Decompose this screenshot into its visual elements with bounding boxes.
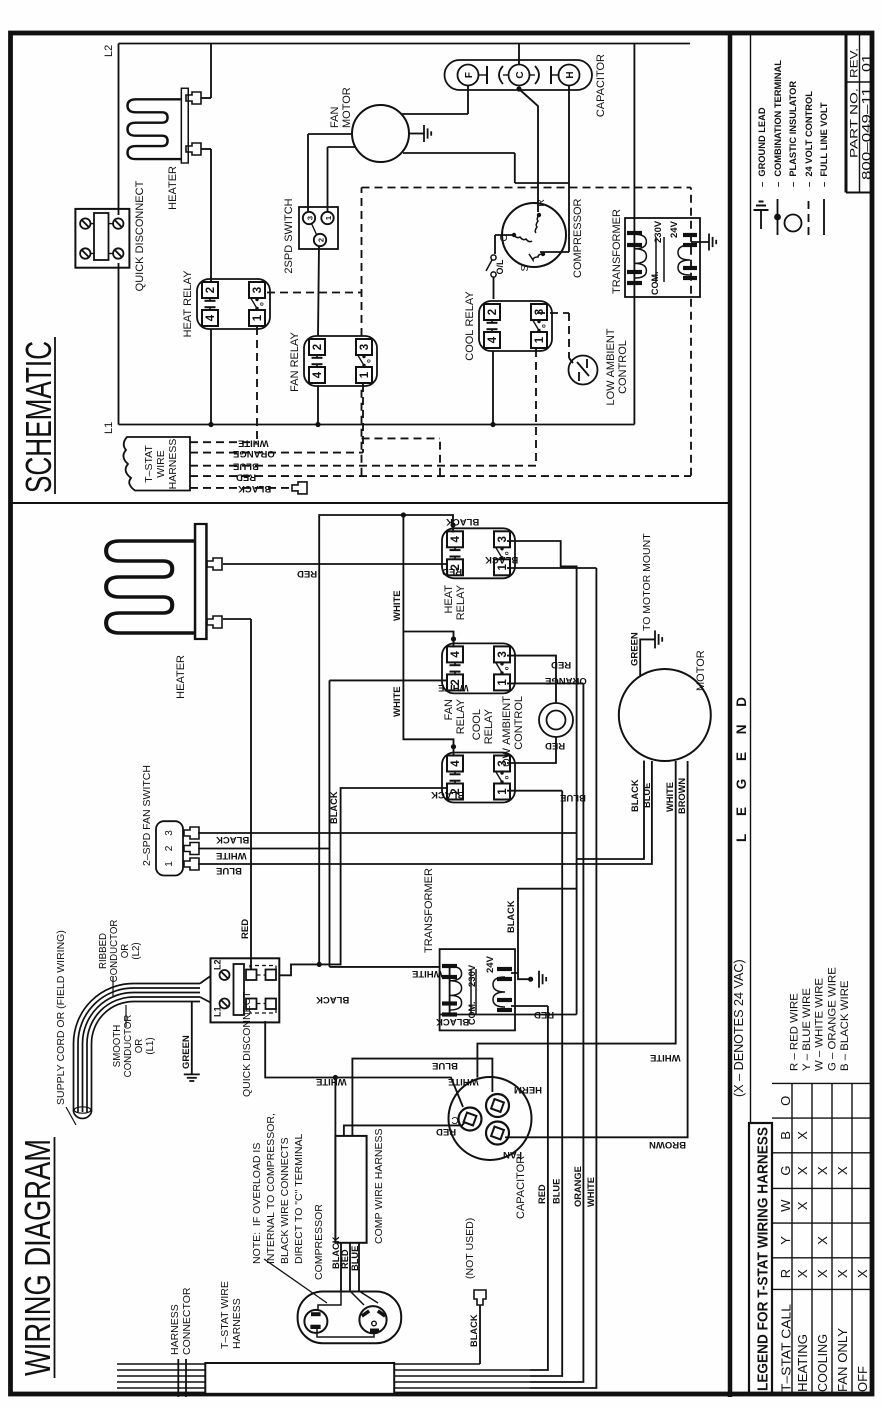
brown label motor <box>677 778 687 814</box>
blue label cap wire <box>432 1060 458 1071</box>
svg-text:LOW AMBIENT: LOW AMBIENT <box>501 696 513 773</box>
white label qd wire <box>316 1076 347 1087</box>
green wire <box>191 1002 193 1075</box>
white label cap wire <box>448 1076 479 1087</box>
fan relay (schematic) <box>304 336 377 386</box>
blue label t-stat dashed <box>233 461 259 472</box>
black label secondary <box>506 900 516 933</box>
white label above fan relay <box>438 682 469 693</box>
svg-text:3: 3 <box>306 216 315 220</box>
transformer label (wiring) <box>423 868 435 953</box>
wire black bus 576 <box>507 541 577 1015</box>
svg-text:– FULL LINE VOLT: – FULL LINE VOLT <box>819 102 829 187</box>
svg-text:INTERNAL TO COMPRESSOR,: INTERNAL TO COMPRESSOR, <box>265 1113 277 1264</box>
svg-text:o: o <box>505 775 511 779</box>
svg-text:L E G E N D: L E G E N D <box>734 690 749 842</box>
wire fan relay 3 dashed long <box>361 188 363 337</box>
compressor plug label <box>313 1204 325 1280</box>
svg-text:TRANSFORMER: TRANSFORMER <box>423 868 435 953</box>
wire dashed black t-stat <box>190 487 290 489</box>
svg-text:X: X <box>855 1269 870 1278</box>
wire color key <box>789 967 851 1071</box>
wire L2 rail <box>119 43 691 45</box>
svg-text:– GROUND LEAD: – GROUND LEAD <box>757 107 767 187</box>
svg-text:TRANSFORMER: TRANSFORMER <box>611 209 623 294</box>
svg-text:HERM: HERM <box>514 1084 542 1095</box>
white label bus <box>586 1177 596 1207</box>
compressor plug <box>298 1292 402 1344</box>
svg-text:BROWN: BROWN <box>677 778 687 814</box>
red label lac right <box>551 659 571 670</box>
svg-text:1: 1 <box>324 216 333 220</box>
svg-text:X: X <box>835 1166 850 1175</box>
svg-text:H: H <box>565 71 576 78</box>
svg-text:QUICK DISCONNECT: QUICK DISCONNECT <box>241 991 253 1097</box>
svg-text:X: X <box>835 1269 850 1278</box>
svg-text:BLUE: BLUE <box>560 792 586 803</box>
not used label <box>464 1218 476 1279</box>
svg-text:o: o <box>542 324 548 328</box>
svg-text:LOW AMBIENT: LOW AMBIENT <box>605 328 617 405</box>
svg-text:COOL RELAY: COOL RELAY <box>464 291 476 361</box>
fan motor ground wire <box>409 133 424 135</box>
svg-text:B – BLACK WIRE: B – BLACK WIRE <box>839 980 851 1071</box>
wire red qd to heater <box>223 619 251 969</box>
svg-text:BLACK: BLACK <box>329 791 339 824</box>
wire black pin3 <box>198 832 577 834</box>
capacitor label (schematic) <box>595 54 607 117</box>
svg-text:C: C <box>515 71 526 78</box>
svg-text:LEGEND FOR T-STAT WIRING HARNE: LEGEND FOR T-STAT WIRING HARNESS <box>755 1127 772 1391</box>
motor label (wiring) <box>695 650 707 691</box>
svg-text:2: 2 <box>487 309 499 315</box>
legend strip thick divider <box>728 35 733 1397</box>
WIRING DIAGRAM title <box>17 1137 58 1378</box>
heater terminal plug 2 (wiring) <box>207 616 222 628</box>
low ambient control label (schematic) <box>605 328 629 405</box>
not used plug <box>474 1290 486 1305</box>
transformer label (schematic) <box>611 209 623 294</box>
svg-text:WHITE: WHITE <box>650 1052 681 1063</box>
combination terminal legend row <box>773 60 783 235</box>
svg-text:2: 2 <box>317 238 326 242</box>
blue label motor <box>642 783 652 808</box>
legend table for t-stat wiring harness <box>749 1083 872 1395</box>
heater (schematic) <box>128 88 189 163</box>
comp wire harness <box>335 1136 366 1243</box>
wire heat relay 1 dashed white <box>256 327 258 442</box>
svg-text:4: 4 <box>450 651 462 658</box>
svg-text:(X – DENOTES 24 VAC): (X – DENOTES 24 VAC) <box>732 959 746 1097</box>
wire dashed blue t-stat <box>190 465 536 467</box>
black label heat relay 3 <box>485 554 518 565</box>
svg-text:HEAT RELAY: HEAT RELAY <box>182 270 194 337</box>
svg-text:RED: RED <box>534 1009 554 1020</box>
transformer (schematic) <box>625 218 700 297</box>
svg-text:3: 3 <box>164 830 175 836</box>
svg-text:FAN ONLY: FAN ONLY <box>835 1328 850 1392</box>
t-stat wire harness (schematic) <box>123 437 190 491</box>
wire orange fan relay 1 <box>507 682 583 684</box>
blue label cool1 <box>560 792 586 803</box>
svg-text:RED: RED <box>340 1249 350 1269</box>
svg-text:o: o <box>367 359 373 363</box>
svg-text:BLUE: BLUE <box>432 1060 458 1071</box>
svg-text:BLACK: BLACK <box>469 1314 479 1347</box>
brown label vertical <box>649 1139 686 1150</box>
svg-text:WHITE: WHITE <box>238 438 269 449</box>
svg-text:F: F <box>464 72 475 78</box>
blue label bus <box>552 1179 562 1204</box>
red label bus <box>537 1184 547 1204</box>
svg-text:– 24 VOLT CONTROL: – 24 VOLT CONTROL <box>804 91 814 187</box>
capacitor FAN label <box>503 1149 522 1160</box>
wire black transformer feed <box>440 1014 577 1016</box>
wire black not used <box>479 1305 481 1364</box>
SCHEMATIC title <box>18 337 59 494</box>
heat relay (schematic) <box>197 279 270 329</box>
harness connector label <box>169 1287 193 1355</box>
LEGEND strip title <box>734 690 749 842</box>
svg-text:COMPRESSOR: COMPRESSOR <box>572 198 584 278</box>
2-spd fan switch label <box>141 765 153 866</box>
svg-text:2: 2 <box>450 564 462 570</box>
t-stat ribbon cable <box>117 1364 530 1388</box>
svg-text:R – RED WIRE: R – RED WIRE <box>789 993 801 1071</box>
ground lead legend row <box>754 107 769 229</box>
legend strip thin line <box>750 35 752 1123</box>
svg-text:1: 1 <box>252 314 264 321</box>
blue label comp <box>350 1246 360 1271</box>
t-stat harness rect (wiring) <box>205 1363 394 1394</box>
part number block <box>846 33 874 193</box>
black label pin3 <box>216 834 249 845</box>
wire capacitor H to compressor S <box>540 86 569 252</box>
ground at motor mount <box>655 630 662 648</box>
svg-text:ORANGE: ORANGE <box>545 675 587 686</box>
svg-text:HEATING: HEATING <box>795 1334 810 1392</box>
wire white bus <box>530 568 596 1388</box>
svg-text:G – ORANGE WIRE: G – ORANGE WIRE <box>826 967 838 1071</box>
fan motor (schematic) <box>352 105 409 162</box>
black label bus <box>446 516 479 527</box>
svg-text:2: 2 <box>205 287 217 293</box>
black label motor <box>630 779 640 812</box>
svg-text:RED: RED <box>240 919 251 939</box>
svg-text:O: O <box>778 1096 793 1106</box>
svg-text:L2: L2 <box>103 45 115 57</box>
cool relay label (wiring) <box>471 708 495 744</box>
black label qd <box>316 994 349 1005</box>
wire switch 3 to motor <box>308 134 353 212</box>
wire blue bus <box>530 791 562 1376</box>
svg-text:WHITE: WHITE <box>586 1177 596 1207</box>
svg-text:01: 01 <box>860 54 874 72</box>
svg-text:RED: RED <box>236 472 256 483</box>
red label cap wire <box>436 1126 456 1137</box>
svg-text:COMP WIRE HARNESS: COMP WIRE HARNESS <box>373 1128 385 1244</box>
cool relay (schematic) <box>479 301 552 351</box>
2-spd fan switch (wiring) <box>156 821 199 875</box>
black label comp <box>331 1236 341 1269</box>
svg-text:CONNECTOR: CONNECTOR <box>181 1287 193 1355</box>
svg-text:COOL: COOL <box>471 709 483 740</box>
wire dashed white t-stat <box>190 441 257 443</box>
svg-text:T–STAT WIRE: T–STAT WIRE <box>219 1281 231 1349</box>
red label comp <box>340 1249 350 1269</box>
svg-text:RIBBED: RIBBED <box>98 933 109 969</box>
svg-text:WHITE: WHITE <box>392 590 403 621</box>
wire L2 to heater <box>201 44 211 99</box>
wire dashed orange t-stat <box>190 452 363 454</box>
svg-text:4: 4 <box>487 336 499 343</box>
svg-text:HEATER: HEATER <box>175 655 187 699</box>
svg-text:RELAY: RELAY <box>483 708 495 744</box>
L1 label <box>103 422 115 434</box>
svg-text:X: X <box>795 1166 810 1175</box>
svg-text:R: R <box>778 1269 793 1278</box>
wire blue pin1 to motor <box>198 761 652 864</box>
svg-text:1: 1 <box>359 371 371 378</box>
svg-text:4: 4 <box>312 371 324 378</box>
svg-text:ORANGE: ORANGE <box>233 448 275 459</box>
svg-text:1: 1 <box>497 679 509 686</box>
wire black motor <box>577 761 644 860</box>
wire red lac to cool3 <box>507 737 556 763</box>
svg-text:R: R <box>535 199 547 207</box>
svg-text:HEAT: HEAT <box>443 585 455 614</box>
orange label fan1 <box>545 675 587 686</box>
svg-text:o: o <box>260 302 266 306</box>
svg-text:MOTOR: MOTOR <box>695 650 707 691</box>
white label transformer feed <box>412 968 443 979</box>
wire white pin2 bus <box>198 680 447 967</box>
svg-text:HEATER: HEATER <box>167 166 179 210</box>
wire cool relay 3 dashed to LAC <box>537 313 573 363</box>
svg-text:X: X <box>815 1166 830 1175</box>
wire red transformer secondary <box>511 1005 548 1007</box>
svg-text:3: 3 <box>534 309 546 315</box>
svg-text:X: X <box>815 1236 830 1245</box>
svg-text:B: B <box>778 1131 793 1140</box>
black label transformer feed <box>436 1016 469 1027</box>
svg-text:WHITE: WHITE <box>438 682 469 693</box>
ground at green wire <box>184 1074 200 1081</box>
svg-text:3: 3 <box>252 287 264 293</box>
svg-text:FAN: FAN <box>329 107 341 128</box>
svg-text:CONDUCTOR: CONDUCTOR <box>123 1015 134 1078</box>
svg-text:CONDUCTOR: CONDUCTOR <box>109 920 120 983</box>
svg-text:RED: RED <box>537 1184 547 1204</box>
wire blue cool relay 1 <box>507 790 562 792</box>
wire black qd to cool relay 2 <box>319 788 447 964</box>
svg-text:TO MOTOR MOUNT: TO MOTOR MOUNT <box>641 533 653 631</box>
fan relay label (wiring) <box>443 698 467 734</box>
svg-text:NOTE: IF OVERLOAD IS: NOTE: IF OVERLOAD IS <box>251 1143 263 1264</box>
svg-text:(L1): (L1) <box>145 1037 156 1054</box>
wire compressor C to OL <box>495 235 513 254</box>
capacitor label (wiring) <box>515 1156 527 1219</box>
wire cool relay 1 dashed blue <box>535 349 537 466</box>
black label not used <box>469 1314 479 1347</box>
wire white motor <box>477 761 675 1078</box>
svg-text:RELAY: RELAY <box>455 584 467 620</box>
wire motor to capacitor F <box>401 86 468 114</box>
capacitor HERM label <box>514 1084 542 1095</box>
fan relay label (schematic) <box>289 331 301 391</box>
svg-text:QUICK DISCONNECT: QUICK DISCONNECT <box>134 180 146 291</box>
svg-text:L2: L2 <box>213 959 223 970</box>
wire heater to heat relay 2 <box>201 149 211 281</box>
heat relay label (schematic) <box>182 270 194 337</box>
wires harness to plug <box>341 1243 359 1291</box>
plug terminal on black dashed <box>292 482 307 494</box>
wire capacitor C to L2 <box>518 44 520 65</box>
fan relay (wiring) <box>442 643 515 693</box>
blue label pin1 <box>216 865 242 876</box>
svg-text:o: o <box>505 666 511 670</box>
x denotes note <box>732 959 746 1097</box>
svg-text:230V: 230V <box>467 964 478 987</box>
wire fan relay 1 dashed orange <box>362 384 364 453</box>
svg-text:2SPD SWITCH: 2SPD SWITCH <box>283 198 295 273</box>
svg-text:GREEN: GREEN <box>181 1035 192 1069</box>
wire blue comp harness to herm <box>352 1059 492 1136</box>
2spd switch label (schematic) <box>283 198 295 273</box>
heater terminal plug 2 (schematic) <box>186 143 201 155</box>
plastic insulator legend row <box>785 81 802 232</box>
svg-text:230V: 230V <box>653 220 664 243</box>
white label pin2 <box>216 850 247 861</box>
wire green motor mount <box>640 639 655 676</box>
low ambient control label (wiring) <box>501 696 525 773</box>
svg-text:4: 4 <box>450 760 462 767</box>
ground at transformer (schematic) <box>709 234 716 251</box>
wire fan relay 2 to switch <box>318 246 319 336</box>
svg-text:WHITE: WHITE <box>316 1076 347 1087</box>
svg-text:BLACK WIRE CONNECTS: BLACK WIRE CONNECTS <box>279 1137 291 1264</box>
svg-text:BLUE: BLUE <box>350 1246 360 1271</box>
wire transformer secondary to ground <box>511 973 533 982</box>
wire cool relay 4 to L1 <box>490 351 495 427</box>
wire switch 1 to motor <box>328 147 357 212</box>
wire brown motor <box>505 761 688 1137</box>
wire dashed notch vertical <box>362 437 441 439</box>
2spd switch (schematic) <box>299 207 338 249</box>
svg-text:3: 3 <box>359 344 371 350</box>
orange label t-stat dashed <box>233 448 275 459</box>
svg-text:BLACK: BLACK <box>216 834 249 845</box>
svg-text:W: W <box>778 1199 793 1212</box>
heat relay label (wiring) <box>443 584 467 620</box>
svg-text:800–049–11: 800–049–11 <box>860 87 874 180</box>
wire red comp harness to capacitor C <box>344 1122 465 1136</box>
svg-text:HARNESS: HARNESS <box>231 1298 243 1349</box>
wire black qd to heat relay 4 <box>279 515 455 975</box>
wire top rail L1-L2 <box>118 44 120 425</box>
wire L1 rail <box>119 424 635 426</box>
overload OL (schematic) <box>486 255 505 277</box>
white label motor <box>665 782 675 812</box>
svg-text:O/L: O/L <box>495 259 505 275</box>
svg-text:Y: Y <box>778 1236 793 1245</box>
svg-text:BLUE: BLUE <box>552 1179 562 1204</box>
wire transformer secondary ground lead <box>691 241 709 243</box>
svg-text:(NOT USED): (NOT USED) <box>464 1218 476 1279</box>
svg-text:BLACK: BLACK <box>431 789 464 800</box>
quick disconnect (schematic) <box>75 209 129 268</box>
wire white heat relay 1 <box>507 567 596 569</box>
svg-text:BROWN: BROWN <box>649 1139 686 1150</box>
ribbed conductor label <box>98 920 142 996</box>
svg-text:24V: 24V <box>485 955 496 973</box>
heat relay (wiring) <box>442 528 515 578</box>
red label on qd-heater wire <box>240 919 251 939</box>
wire red heater to heat relay 2 <box>223 563 447 565</box>
svg-text:COOLING: COOLING <box>815 1334 830 1392</box>
svg-text:(L2): (L2) <box>131 942 142 959</box>
svg-text:RED: RED <box>436 1126 456 1137</box>
svg-text:2: 2 <box>312 344 324 350</box>
svg-text:CONTROL: CONTROL <box>513 696 525 750</box>
wire fan relay 4 to L1 <box>315 386 320 427</box>
heater terminal plug 1 (wiring) <box>207 558 222 570</box>
wire transformer primary line <box>633 44 635 425</box>
svg-text:– COMBINATION TERMINAL: – COMBINATION TERMINAL <box>773 60 783 187</box>
t-stat wire harness label (wiring) <box>219 1281 243 1349</box>
transformer (wiring) <box>440 949 515 1030</box>
svg-text:W – WHITE WIRE: W – WHITE WIRE <box>814 978 826 1071</box>
svg-text:T–STAT CALL: T–STAT CALL <box>779 1304 794 1392</box>
supply cord label <box>55 930 76 1125</box>
svg-text:CAPACITOR: CAPACITOR <box>595 54 607 117</box>
svg-text:MOTOR: MOTOR <box>341 87 353 128</box>
svg-text:WHITE: WHITE <box>392 686 403 717</box>
smooth conductor label <box>112 1005 156 1077</box>
wire dashed notch horizontal <box>439 438 441 475</box>
svg-text:GREEN: GREEN <box>630 632 641 666</box>
svg-text:BLACK: BLACK <box>316 994 349 1005</box>
section divider wiring/schematic <box>12 502 730 504</box>
wire dashed red t-stat <box>190 475 691 477</box>
svg-text:HARNESS: HARNESS <box>169 1304 181 1355</box>
cool relay label (schematic) <box>464 291 476 361</box>
harness connector ticks <box>178 1359 186 1397</box>
svg-text:SMOOTH: SMOOTH <box>112 1025 123 1068</box>
svg-text:X: X <box>795 1131 810 1140</box>
svg-text:RED: RED <box>297 568 317 579</box>
motor (wiring) <box>619 669 711 761</box>
svg-text:OR: OR <box>120 944 131 959</box>
24 volt control legend row <box>804 91 814 235</box>
svg-text:COM.: COM. <box>467 1002 477 1026</box>
cool relay (wiring) <box>442 753 515 803</box>
low ambient control (schematic) <box>569 356 598 385</box>
svg-text:FAN: FAN <box>443 699 455 720</box>
svg-text:WHITE: WHITE <box>665 782 675 812</box>
wire black comp harness <box>333 1075 338 1136</box>
svg-text:WIRING DIAGRAM: WIRING DIAGRAM <box>17 1139 58 1376</box>
svg-text:BLACK: BLACK <box>485 554 518 565</box>
svg-text:RELAY: RELAY <box>455 698 467 734</box>
wire black transformer secondary <box>518 889 577 973</box>
svg-text:WIRE: WIRE <box>155 450 167 477</box>
fan motor label (schematic) <box>329 87 353 128</box>
supply cord <box>74 976 211 1118</box>
svg-text:ORANGE: ORANGE <box>573 1166 583 1207</box>
full line volt legend row <box>819 102 829 235</box>
svg-text:1: 1 <box>534 336 546 343</box>
